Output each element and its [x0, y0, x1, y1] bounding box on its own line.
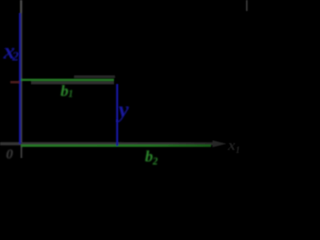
gray halo above top segment: [74, 75, 115, 78]
x-axis arrowhead: [213, 140, 227, 147]
svg-text:2: 2: [152, 157, 158, 168]
x-axis (gray horizontal line): [0, 142, 214, 145]
y-axis top brighter tip: [20, 0, 22, 13]
svg-text:1: 1: [68, 89, 73, 100]
blue overlay on y-axis: [19, 13, 21, 144]
middle blue vertical segment: [116, 84, 118, 146]
top-right faint mark: [246, 0, 248, 11]
top green segment: [21, 79, 114, 81]
gray halo under top segment: [31, 81, 114, 84]
bottom green segment: [21, 145, 211, 147]
svg-text:2: 2: [11, 49, 19, 64]
svg-text:b: b: [145, 149, 153, 166]
y-axis (gray vertical line): [20, 0, 22, 158]
red tick on y-axis: [10, 81, 19, 83]
svg-text:y: y: [116, 97, 130, 122]
svg-text:0: 0: [6, 148, 13, 163]
